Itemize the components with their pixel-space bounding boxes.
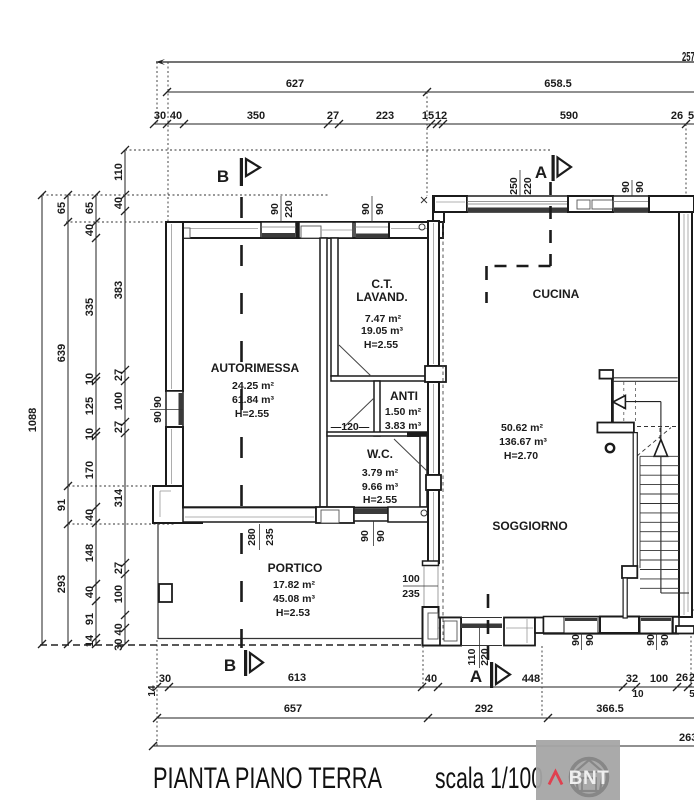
wall pier WC corner <box>426 475 441 490</box>
wall south WC-east segment <box>388 507 428 522</box>
svg-text:250: 250 <box>508 177 520 195</box>
svg-text:100: 100 <box>402 573 420 585</box>
wall soggiorno west mid <box>428 382 439 475</box>
dotted connector x168 <box>167 62 169 222</box>
svg-text:A: A <box>470 667 482 686</box>
stair steps <box>640 455 679 457</box>
section line A jog <box>487 265 551 268</box>
wall CT south <box>331 376 428 381</box>
svg-text:27: 27 <box>113 562 125 574</box>
svg-text:91: 91 <box>56 499 68 511</box>
dim rowA bottom chain <box>157 686 694 688</box>
window W8 soggiorno south 90/90 <box>564 617 598 634</box>
svg-text:40: 40 <box>425 673 437 685</box>
svg-text:27: 27 <box>113 421 125 433</box>
svg-text:90: 90 <box>359 530 371 542</box>
svg-text:CUCINA: CUCINA <box>533 287 580 301</box>
portico south dashed <box>40 644 422 646</box>
svg-text:627: 627 <box>286 78 304 90</box>
svg-text:32: 32 <box>626 673 638 685</box>
wall soggiorno west door head <box>423 561 439 566</box>
wall cucina north seg2 <box>568 196 613 212</box>
svg-text:110: 110 <box>113 163 125 181</box>
svg-text:C.T.: C.T. <box>371 277 392 291</box>
wall ANTI west <box>374 381 380 436</box>
svg-text:223: 223 <box>376 110 394 122</box>
svg-text:B: B <box>224 656 236 675</box>
svg-text:5: 5 <box>689 689 694 700</box>
svg-text:14: 14 <box>147 685 158 697</box>
svg-text:3.83 m³: 3.83 m³ <box>385 420 422 432</box>
wall WC north <box>327 432 427 436</box>
svg-text:50.62 m²: 50.62 m² <box>501 422 544 434</box>
wall garage west lower <box>166 427 183 486</box>
portico west edge <box>157 523 159 639</box>
dotted connector x423 bottom <box>422 646 424 690</box>
svg-text:136.67 m³: 136.67 m³ <box>499 436 547 448</box>
svg-text:W.C.: W.C. <box>367 447 393 461</box>
svg-text:220: 220 <box>522 177 534 195</box>
svg-text:30: 30 <box>154 110 166 122</box>
dotted connector x157 top <box>156 62 158 124</box>
svg-text:100: 100 <box>113 392 125 410</box>
svg-text:10: 10 <box>84 373 96 385</box>
stair side wall <box>633 433 637 568</box>
svg-text:65: 65 <box>56 202 68 214</box>
svg-text:639: 639 <box>56 344 68 362</box>
stair lower wall <box>623 578 627 618</box>
svg-text:3.79 m²: 3.79 m² <box>362 467 399 479</box>
svg-text:90: 90 <box>620 181 632 193</box>
svg-text:65: 65 <box>84 202 96 214</box>
svg-text:10: 10 <box>632 689 644 700</box>
svg-text:A: A <box>535 163 547 182</box>
svg-text:H=2.70: H=2.70 <box>504 450 538 462</box>
svg-text:280: 280 <box>246 528 258 546</box>
svg-text:AUTORIMESSA: AUTORIMESSA <box>211 361 300 375</box>
stair arrow up <box>654 439 668 456</box>
svg-text:590: 590 <box>560 110 578 122</box>
svg-text:LAVAND.: LAVAND. <box>356 290 408 304</box>
svg-text:658.5: 658.5 <box>544 78 572 90</box>
svg-text:27: 27 <box>327 110 339 122</box>
window W1 garage north 90/220 <box>261 222 296 238</box>
svg-text:12: 12 <box>435 110 447 122</box>
svg-text:90: 90 <box>375 530 387 542</box>
door swing CT <box>339 345 371 376</box>
svg-text:90: 90 <box>570 634 582 646</box>
section line A bottom mark <box>490 662 493 688</box>
window W6 WC south 90/90 <box>354 508 388 521</box>
dotted guide y222 <box>66 221 166 223</box>
svg-text:335: 335 <box>84 298 96 316</box>
x-mark wall junction <box>421 197 427 203</box>
stair wall bar <box>597 423 634 433</box>
svg-text:657: 657 <box>284 703 302 715</box>
svg-text:292: 292 <box>475 703 493 715</box>
svg-text:—120—: —120— <box>331 421 370 433</box>
dim row1 total 2570 line <box>156 61 694 63</box>
wall cucina north seg1 <box>434 196 467 212</box>
wall south garage segment <box>183 507 316 522</box>
dim row2 658.5 line <box>427 91 694 93</box>
svg-text:90: 90 <box>360 203 372 215</box>
dim row2 627 line <box>167 91 427 93</box>
wall garage east <box>320 238 327 507</box>
window W4 cucina 90/90 <box>613 196 649 212</box>
wall soggiorno se corner <box>679 609 694 611</box>
opening garage north 299-353 <box>299 222 353 238</box>
dotted guide y195 <box>42 194 330 196</box>
svg-text:2570: 2570 <box>682 49 694 64</box>
svg-text:26: 26 <box>676 672 688 684</box>
watermark box <box>536 740 620 800</box>
svg-text:91: 91 <box>84 613 96 625</box>
dim rowB 657/292/366.5 <box>157 717 694 719</box>
stair newel top <box>600 370 614 379</box>
dotted connector x691 bottom <box>690 636 692 687</box>
dotted connector x427 <box>426 92 428 196</box>
dim rowC 263 line <box>153 745 694 747</box>
svg-text:148: 148 <box>84 544 96 562</box>
svg-text:30: 30 <box>159 673 171 685</box>
section line A upper dashes <box>549 182 552 266</box>
wall soggiorno south block2 <box>535 618 544 634</box>
svg-text:PORTICO: PORTICO <box>268 561 323 575</box>
dim row3 chain 30/40/350/27/223/15/12/590/26 <box>154 123 694 125</box>
section line A lower dashes <box>487 594 490 660</box>
french door soggiorno south <box>600 617 639 634</box>
dotted guide y150 <box>125 149 551 151</box>
window W7 soggiorno south 110/220 <box>461 617 502 619</box>
svg-text:BNT: BNT <box>569 768 610 789</box>
stair dotted guides <box>623 382 625 422</box>
stair dashed cut lines <box>637 426 679 428</box>
stair wall top <box>611 379 614 423</box>
svg-text:H=2.55: H=2.55 <box>364 339 398 351</box>
section line B dashes <box>240 197 243 648</box>
pier garage north <box>296 222 300 238</box>
svg-text:40: 40 <box>84 224 96 236</box>
svg-text:350: 350 <box>247 110 265 122</box>
dotted connector x157 bottom <box>156 640 158 746</box>
wall soggiorno south block1 <box>440 618 461 646</box>
window W5 garage west 90/90 <box>166 391 183 427</box>
svg-text:314: 314 <box>113 488 125 507</box>
wall WC east <box>420 436 427 507</box>
svg-text:90: 90 <box>269 203 281 215</box>
svg-text:235: 235 <box>264 528 276 546</box>
svg-text:17.82 m²: 17.82 m² <box>273 579 316 591</box>
door soggiorno west 100/235 <box>423 566 425 607</box>
wall CT west <box>331 238 338 376</box>
svg-text:100: 100 <box>113 585 125 603</box>
svg-text:90: 90 <box>374 203 386 215</box>
svg-text:7.47 m²: 7.47 m² <box>365 313 402 325</box>
stair route line <box>660 456 662 593</box>
wall pier CT corner <box>425 366 446 382</box>
dotted overhang line <box>442 222 444 640</box>
svg-text:40: 40 <box>84 509 96 521</box>
dim col1 1088 <box>41 195 43 644</box>
dotted connector x542 bottom <box>541 646 543 718</box>
svg-text:30 40: 30 40 <box>113 623 125 651</box>
stair landing lines <box>614 377 678 379</box>
svg-text:170: 170 <box>84 461 96 479</box>
wall CT north right part <box>389 222 443 238</box>
svg-text:90: 90 <box>634 181 646 193</box>
door swing WC <box>394 439 427 471</box>
svg-text:27: 27 <box>113 369 125 381</box>
section line A top mark <box>552 155 555 181</box>
svg-text:H=2.55: H=2.55 <box>235 408 269 420</box>
dotted connector x686 <box>685 124 687 196</box>
svg-text:383: 383 <box>113 281 125 299</box>
stair column circle <box>606 444 614 452</box>
wall soggiorno west upper <box>428 221 439 366</box>
window W2 CT north 90/90 <box>355 222 389 238</box>
svg-text:61.84 m³: 61.84 m³ <box>232 394 275 406</box>
svg-text:110: 110 <box>466 648 478 665</box>
svg-text:40: 40 <box>170 110 182 122</box>
portico south edge <box>158 638 422 640</box>
svg-text:PIANTA PIANO TERRA: PIANTA PIANO TERRA <box>153 762 382 795</box>
svg-text:90: 90 <box>152 411 164 423</box>
watermark red caret <box>549 772 562 785</box>
stair arrow left <box>613 396 625 409</box>
window W3 cucina french 250/220 <box>467 196 568 212</box>
wall cucina north seg3 <box>649 196 694 212</box>
svg-text:10: 10 <box>84 428 96 440</box>
dim col2 65/639/91/293 <box>67 195 69 644</box>
svg-text:2: 2 <box>689 672 694 684</box>
watermark circle house logo <box>571 759 608 796</box>
svg-text:40: 40 <box>84 586 96 598</box>
svg-text:5: 5 <box>688 110 694 122</box>
svg-text:293: 293 <box>56 575 68 593</box>
svg-text:H=2.55: H=2.55 <box>363 494 397 506</box>
wall soggiorno sw corner L <box>423 607 462 646</box>
svg-text:19.05 m³: 19.05 m³ <box>361 325 404 337</box>
svg-text:SOGGIORNO: SOGGIORNO <box>492 519 567 533</box>
svg-text:220: 220 <box>283 200 295 218</box>
svg-text:1088: 1088 <box>27 408 39 432</box>
dotted guide y486 <box>68 485 154 487</box>
svg-text:15: 15 <box>422 110 434 122</box>
svg-text:9.66 m³: 9.66 m³ <box>362 481 399 493</box>
svg-text:613: 613 <box>288 672 306 684</box>
window W9 soggiorno south 90/90 <box>640 617 672 634</box>
svg-text:40: 40 <box>113 197 125 209</box>
svg-text:90: 90 <box>152 396 164 408</box>
svg-text:24.25 m²: 24.25 m² <box>232 380 275 392</box>
svg-text:ANTI: ANTI <box>390 389 418 403</box>
svg-text:H=2.53: H=2.53 <box>276 607 310 619</box>
svg-text:448: 448 <box>522 673 540 685</box>
wall soggiorno west lower <box>428 490 439 563</box>
svg-text:1.50 m²: 1.50 m² <box>385 406 422 418</box>
svg-text:90: 90 <box>584 634 596 646</box>
wall garage west upper <box>166 222 183 391</box>
wall cucina north west corner <box>433 196 444 222</box>
svg-text:90: 90 <box>645 634 657 646</box>
wall garage north <box>166 222 443 238</box>
door swing ANTI <box>345 398 374 426</box>
wall east <box>679 212 692 617</box>
svg-text:235: 235 <box>402 588 420 600</box>
stair route upper <box>625 401 661 403</box>
dim col4 chain <box>124 150 126 644</box>
svg-text:scala 1/100: scala 1/100 <box>435 762 543 795</box>
svg-text:366.5: 366.5 <box>596 703 624 715</box>
svg-text:45.08 m³: 45.08 m³ <box>273 593 316 605</box>
wall garage sw corner jog <box>153 486 202 523</box>
stair newel bottom <box>622 566 637 578</box>
wall soggiorno south band right <box>544 617 679 634</box>
section line B top mark <box>240 158 243 186</box>
door soggiorno south <box>504 618 535 646</box>
dotted guide y524 <box>68 523 174 525</box>
section line B bottom mark <box>244 650 247 676</box>
dim col3 chain <box>95 195 97 644</box>
svg-text:90: 90 <box>659 634 671 646</box>
svg-text:100: 100 <box>650 673 668 685</box>
svg-text:B: B <box>217 167 229 186</box>
svg-text:26: 26 <box>671 110 683 122</box>
svg-text:125: 125 <box>84 397 96 415</box>
door portico 316-354 <box>316 507 354 523</box>
portico pillar <box>159 584 172 602</box>
svg-text:263: 263 <box>679 732 694 744</box>
